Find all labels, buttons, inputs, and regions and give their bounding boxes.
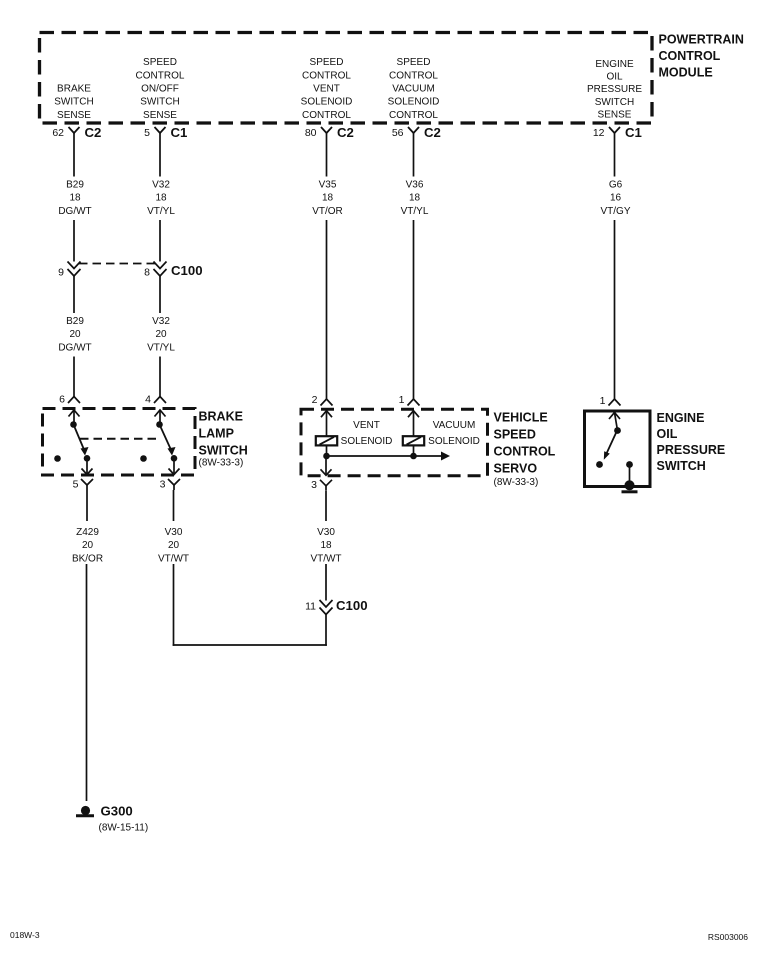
module name label (659, 33, 744, 80)
svg-text:SPEED: SPEED (494, 427, 536, 441)
svg-text:20: 20 (82, 540, 94, 551)
svg-text:BRAKE: BRAKE (57, 84, 91, 95)
wire V32 to C100 pin 8 (159, 220, 161, 262)
PCM pin label: brake switch sense (54, 84, 93, 121)
svg-text:VEHICLE: VEHICLE (494, 410, 548, 424)
wire label B29 20 DG/WT (58, 316, 91, 353)
PCM pin label: speed control vent solenoid control (301, 57, 353, 121)
svg-text:CONTROL: CONTROL (136, 70, 185, 81)
joining wire between V30 branches (173, 644, 327, 646)
wire G6 down to oil pressure switch pin 1 (614, 220, 616, 399)
svg-text:SERVO: SERVO (494, 461, 538, 475)
svg-text:V30: V30 (317, 527, 335, 538)
servo pin 2 connector (312, 394, 333, 436)
wire label B29 18 DG/WT (58, 180, 91, 217)
wire V35 from PCM pin 80 (326, 140, 328, 177)
wire V30 18 to C100 pin 11 (325, 564, 327, 601)
svg-text:ENGINE: ENGINE (595, 59, 634, 70)
svg-text:POWERTRAIN: POWERTRAIN (659, 33, 744, 47)
wire label V35 18 VT/OR (312, 180, 343, 217)
svg-text:SWITCH: SWITCH (140, 97, 179, 108)
wire B29 to brake lamp switch pin 6 (73, 357, 75, 397)
vehicle speed control servo box (301, 409, 488, 476)
svg-text:C2: C2 (337, 125, 354, 140)
servo pin 1 connector (399, 394, 420, 436)
svg-text:VT/WT: VT/WT (158, 553, 189, 564)
svg-text:80: 80 (305, 127, 317, 139)
svg-text:VT/YL: VT/YL (147, 206, 175, 217)
engine oil pressure switch box (585, 411, 651, 487)
PCM pin label: engine oil pressure switch sense (587, 59, 642, 120)
svg-text:CONTROL: CONTROL (389, 110, 438, 121)
svg-text:CONTROL: CONTROL (302, 70, 351, 81)
svg-text:5: 5 (144, 127, 150, 139)
svg-text:BK/OR: BK/OR (72, 553, 103, 564)
svg-text:CONTROL: CONTROL (302, 110, 351, 121)
svg-text:9: 9 (58, 267, 64, 279)
svg-text:VT/OR: VT/OR (312, 206, 343, 217)
svg-text:11: 11 (305, 601, 316, 613)
svg-text:(8W-33-3): (8W-33-3) (199, 458, 244, 469)
oil switch pin 1 connector (600, 395, 621, 431)
svg-text:V30: V30 (165, 527, 183, 538)
svg-text:DG/WT: DG/WT (58, 206, 91, 217)
sheet number 018W-3 (10, 930, 40, 940)
wire Z429 below pin 5 (86, 490, 88, 521)
wire V36 down to servo pin 1 (413, 220, 415, 399)
svg-text:B29: B29 (66, 180, 84, 191)
svg-text:18: 18 (155, 193, 167, 204)
svg-text:Z429: Z429 (76, 527, 99, 538)
svg-text:VENT: VENT (313, 84, 340, 95)
svg-text:3: 3 (160, 479, 166, 491)
svg-text:DG/WT: DG/WT (58, 342, 91, 353)
svg-text:SPEED: SPEED (143, 57, 177, 68)
svg-text:SPEED: SPEED (397, 57, 431, 68)
svg-text:1: 1 (399, 394, 405, 406)
svg-text:C2: C2 (85, 125, 102, 140)
brake switch pin 4 connector (145, 394, 166, 425)
brake switch pin 6 connector (59, 394, 80, 425)
svg-text:V36: V36 (406, 180, 424, 191)
svg-text:VT/YL: VT/YL (147, 342, 175, 353)
svg-text:2: 2 (312, 394, 318, 406)
svg-text:SOLENOID: SOLENOID (388, 97, 440, 108)
svg-text:CONTROL: CONTROL (659, 49, 721, 63)
wire label V36 18 VT/YL (401, 180, 429, 217)
svg-text:VT/GY: VT/GY (600, 206, 630, 217)
svg-text:ENGINE: ENGINE (657, 411, 705, 425)
svg-text:PRESSURE: PRESSURE (587, 84, 642, 95)
brake switch 1 contacts and arm (54, 421, 90, 462)
PCM connector pin 80 C2 (305, 125, 354, 140)
junction dot vacuum (410, 453, 417, 460)
ground G300 symbol (76, 806, 94, 816)
oil pressure switch label (657, 411, 726, 473)
svg-text:LAMP: LAMP (199, 426, 234, 440)
svg-text:C2: C2 (424, 125, 441, 140)
svg-text:18: 18 (322, 193, 334, 204)
svg-text:OIL: OIL (606, 72, 623, 83)
svg-text:VACUUM: VACUUM (392, 84, 435, 95)
wire B29 20 below C100 (73, 276, 75, 313)
svg-text:SWITCH: SWITCH (657, 459, 706, 473)
svg-text:12: 12 (593, 127, 605, 139)
svg-text:SOLENOID: SOLENOID (341, 436, 393, 447)
svg-text:ON/OFF: ON/OFF (141, 84, 179, 95)
svg-text:(8W-33-3): (8W-33-3) (494, 477, 539, 488)
wire V30 20 below pin 3 (173, 490, 175, 521)
oil switch contacts and arm (596, 427, 633, 468)
connector C100 pin 8 (144, 262, 166, 279)
wire V30 18 below servo (325, 491, 327, 521)
svg-text:18: 18 (69, 193, 81, 204)
svg-text:18: 18 (320, 540, 332, 551)
vent solenoid text (341, 420, 393, 447)
wire V36 from PCM pin 56 (413, 140, 415, 177)
svg-text:PRESSURE: PRESSURE (657, 443, 726, 457)
mechanical link dashed line (80, 438, 157, 440)
svg-text:BRAKE: BRAKE (199, 409, 243, 423)
svg-text:20: 20 (69, 329, 81, 340)
svg-text:RS003006: RS003006 (708, 932, 748, 942)
PCM connector pin 12 C1 (593, 125, 642, 140)
ground label G300 (99, 803, 149, 833)
svg-text:18: 18 (409, 193, 421, 204)
brake switch pin 3 connector (160, 459, 180, 491)
svg-text:56: 56 (392, 127, 404, 139)
brake switch 2 contacts and arm (140, 421, 177, 462)
wire V30 20 down to junction (173, 564, 175, 646)
svg-text:SENSE: SENSE (57, 110, 91, 121)
powertrain control module box (40, 33, 653, 124)
PCM pin label: speed control on/off switch sense (136, 57, 185, 121)
svg-text:SENSE: SENSE (598, 109, 632, 120)
svg-text:C1: C1 (625, 125, 642, 140)
wire label Z429 20 BK/OR (72, 527, 103, 564)
svg-text:SPEED: SPEED (310, 57, 344, 68)
brake lamp switch label (199, 409, 248, 468)
PCM connector pin 5 C1 (144, 125, 187, 140)
svg-text:SWITCH: SWITCH (595, 97, 634, 108)
svg-text:V32: V32 (152, 180, 170, 191)
svg-text:1: 1 (600, 395, 606, 407)
wire label G6 16 VT/GY (600, 180, 630, 217)
wire B29 from PCM pin 62 (73, 140, 75, 177)
svg-text:5: 5 (73, 479, 79, 491)
svg-text:VACUUM: VACUUM (433, 420, 476, 431)
svg-text:CONTROL: CONTROL (494, 444, 556, 458)
svg-text:018W-3: 018W-3 (10, 930, 40, 940)
PCM connector pin 56 C2 (392, 125, 441, 140)
vacuum solenoid coil symbol (403, 436, 424, 445)
wire Z429 down to G300 (86, 564, 88, 801)
wire V32 to brake lamp switch pin 4 (159, 357, 161, 397)
svg-text:3: 3 (311, 479, 317, 491)
wire B29 to C100 pin 9 (73, 220, 75, 262)
svg-text:B29: B29 (66, 316, 84, 327)
servo pin 3 connector (311, 459, 332, 491)
wire G6 from PCM pin 12 (614, 140, 616, 177)
connector C100 pin 9 (58, 262, 80, 279)
svg-text:V32: V32 (152, 316, 170, 327)
wire vacuum solenoid to junction (413, 445, 415, 456)
junction dot vent (323, 453, 330, 460)
svg-text:CONTROL: CONTROL (389, 70, 438, 81)
svg-text:VENT: VENT (353, 420, 380, 431)
svg-text:4: 4 (145, 394, 151, 406)
drawing number RS003006 (708, 932, 748, 942)
svg-text:C1: C1 (171, 125, 188, 140)
svg-text:16: 16 (610, 193, 622, 204)
svg-text:SOLENOID: SOLENOID (301, 97, 353, 108)
svg-text:(8W-15-11): (8W-15-11) (99, 823, 149, 834)
svg-text:C100: C100 (171, 263, 203, 278)
svg-text:SWITCH: SWITCH (54, 97, 93, 108)
servo label (494, 410, 556, 488)
svg-text:62: 62 (52, 127, 64, 139)
oil switch internal ground stem (622, 467, 638, 492)
wire V35 down to servo pin 2 (326, 220, 328, 399)
connector C100 label (171, 263, 203, 278)
svg-text:VT/YL: VT/YL (401, 206, 429, 217)
dashed link between C100 pins (79, 263, 155, 265)
svg-text:OIL: OIL (657, 427, 678, 441)
wire label V32 18 VT/YL (147, 180, 175, 217)
svg-text:V35: V35 (319, 180, 337, 191)
PCM pin label: speed control vacuum solenoid control (388, 57, 440, 121)
wire label V30 20 VT/WT (158, 527, 189, 564)
svg-text:MODULE: MODULE (659, 66, 713, 80)
brake lamp switch box (43, 409, 196, 476)
wire label V32 20 VT/YL (147, 316, 175, 353)
wire below C100 pin 11 to junction (325, 615, 327, 646)
svg-text:VT/WT: VT/WT (310, 553, 341, 564)
svg-text:G300: G300 (101, 803, 133, 818)
svg-text:8: 8 (144, 267, 150, 279)
vacuum solenoid text (428, 420, 480, 447)
wire V32 from PCM pin 5 (159, 140, 161, 177)
svg-text:SWITCH: SWITCH (199, 443, 248, 457)
wire V32 20 below C100 (159, 276, 161, 313)
svg-text:SENSE: SENSE (143, 110, 177, 121)
wire vent solenoid to junction (326, 445, 328, 456)
PCM connector pin 62 C2 (52, 125, 101, 140)
svg-text:20: 20 (155, 329, 167, 340)
svg-text:SOLENOID: SOLENOID (428, 436, 480, 447)
svg-text:G6: G6 (609, 180, 623, 191)
connector C100 pin 11 (305, 598, 367, 615)
servo internal bus with arrow (327, 452, 451, 461)
svg-text:6: 6 (59, 394, 65, 406)
wire label V30 18 VT/WT (310, 527, 341, 564)
svg-text:20: 20 (168, 540, 180, 551)
svg-text:C100: C100 (336, 598, 368, 613)
vent solenoid coil symbol (316, 436, 337, 445)
brake switch pin 5 connector (73, 459, 93, 491)
